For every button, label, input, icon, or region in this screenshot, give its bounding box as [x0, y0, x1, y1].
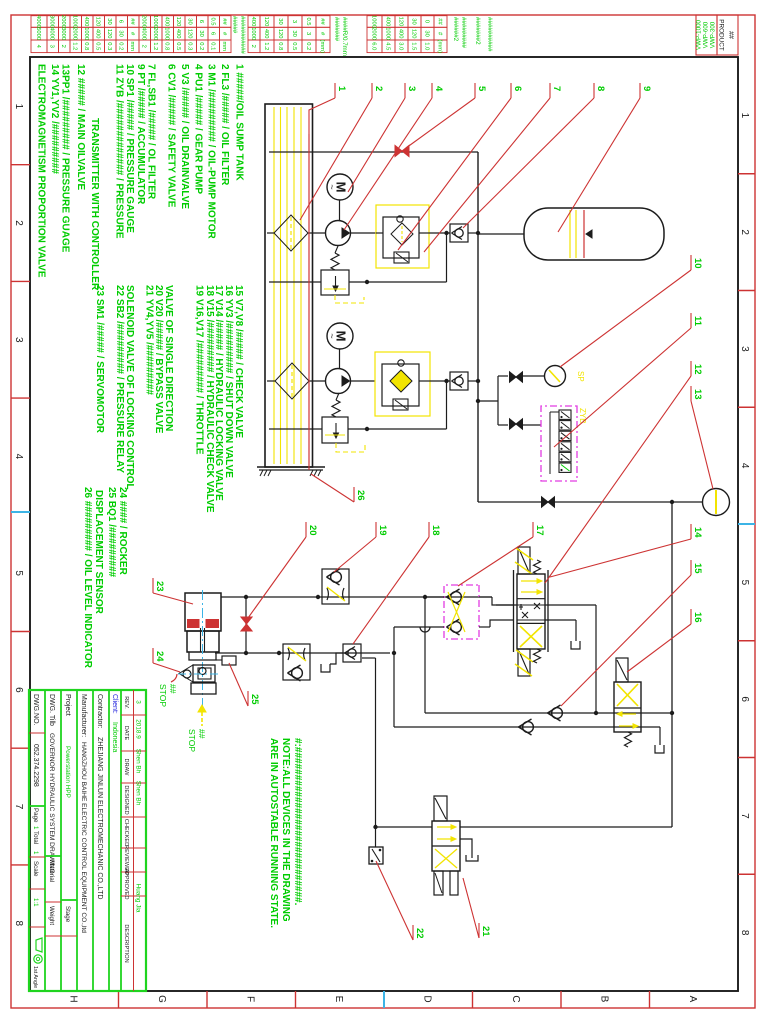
- svg-text:3: 3: [739, 346, 750, 352]
- wire FL1 to check V5: [429, 232, 450, 234]
- svg-text:1:1: 1:1: [32, 898, 39, 907]
- piston rod bottom: [200, 628, 202, 652]
- svg-text:2000: 2000: [152, 27, 158, 40]
- wire valve12 port P X=605: [545, 604, 596, 606]
- relief1 arrow: [335, 276, 337, 288]
- svg-text:18 V15 /######### / HYDRAULIC: 18 V15 /######### / HYDRAULIC CHECK VALV…: [204, 285, 215, 513]
- zone tick right 6: [206, 991, 208, 1008]
- zone tick top 3: [738, 406, 755, 408]
- svg-text:APPROVED: APPROVED: [123, 868, 129, 899]
- junction rail/gauge branch: [476, 399, 480, 403]
- wire Y=343 to X=713: [424, 597, 426, 713]
- svg-text:ZYB: ZYB: [578, 408, 587, 424]
- valve16 solenoid tab: [616, 658, 628, 682]
- svg-text:1.2: 1.2: [152, 42, 158, 50]
- wire pump1 suction: [308, 232, 326, 234]
- ZYB switch cell 4: [559, 442, 571, 451]
- svg-text:0.2: 0.2: [305, 42, 311, 50]
- svg-text:7 FL,SB1 /##### / OL FILTER: 7 FL,SB1 /##### / OL FILTER: [146, 64, 157, 200]
- yellow pilot dashed box relief1: [335, 295, 364, 303]
- motor M2: [327, 323, 353, 349]
- locking solenoid valve YV4/YV5 (21): [432, 821, 460, 871]
- svg-text:3 M1 /######### / OIL-PUMP MOT: 3 M1 /######### / OIL-PUMP MOTOR: [206, 64, 217, 239]
- svg-text:VWP-600: VWP-600: [703, 21, 710, 48]
- zone tick top 2: [738, 290, 755, 292]
- tolerance table 1 upper: [316, 16, 330, 28]
- valve12 bottom plate: [513, 570, 515, 652]
- leader 5: [474, 83, 476, 98]
- svg-text:12: 12: [692, 364, 703, 375]
- svg-text:11 ZYB /############# / PRESSU: 11 ZYB /############# / PRESSURE: [113, 64, 124, 239]
- tank oil level red line: [308, 134, 310, 470]
- junction rail/train1: [476, 231, 480, 235]
- svg-text:25 BQ1 /#########: 25 BQ1 /#########: [106, 487, 117, 578]
- svg-text:4000: 4000: [49, 27, 55, 40]
- svg-text:#: #: [436, 32, 442, 36]
- junction riser/top line: [670, 500, 674, 504]
- svg-text:HANGZHOU BAIHE ELECTRIC CONTRO: HANGZHOU BAIHE ELECTRIC CONTROL EQUIPMEN…: [80, 742, 87, 933]
- displacement sensor BQ1 (25): [222, 656, 236, 665]
- svg-text:##: ##: [727, 31, 734, 39]
- svg-text:400: 400: [263, 29, 269, 39]
- leader 14: [690, 524, 692, 539]
- check valve box (8) train1: [450, 224, 468, 242]
- svg-text:1: 1: [32, 851, 39, 855]
- zone tick bottom 2: [11, 280, 30, 282]
- svg-text:Client:: Client:: [111, 694, 118, 714]
- svg-text:2000: 2000: [72, 27, 78, 40]
- svg-text:2: 2: [250, 45, 256, 48]
- svg-text:24: 24: [154, 651, 165, 662]
- wire relief2 inlet: [348, 428, 447, 430]
- svg-text:Weight: Weight: [48, 906, 55, 925]
- svg-text:0.8: 0.8: [83, 42, 89, 50]
- svg-text:STOP: STOP: [158, 684, 168, 707]
- leader 23: [152, 578, 154, 593]
- svg-text:#######2: #######2: [474, 17, 481, 45]
- svg-text:1st Angle: 1st Angle: [32, 966, 38, 988]
- rocker bracket triangle: [179, 665, 193, 682]
- svg-text:(mm): (mm): [436, 40, 442, 54]
- check valve: [292, 668, 303, 679]
- wire gauge header: [497, 376, 499, 425]
- svg-text:B: B: [598, 996, 609, 1003]
- wire jog A to valve12: [492, 597, 513, 605]
- svg-text:30: 30: [198, 30, 204, 36]
- zone tick right 5: [295, 991, 297, 1008]
- svg-text:0.5: 0.5: [291, 42, 297, 50]
- tank oil line 5: [273, 107, 275, 464]
- svg-text:VALVE OF SINGLE DIRECTION: VALVE OF SINGLE DIRECTION: [163, 285, 174, 431]
- svg-text:3: 3: [13, 337, 24, 343]
- svg-text:7: 7: [739, 813, 750, 819]
- leader 21: [478, 923, 480, 938]
- svg-text:2: 2: [60, 45, 66, 48]
- svg-text:120: 120: [397, 17, 403, 27]
- svg-text:1: 1: [32, 826, 39, 830]
- svg-text:8: 8: [739, 930, 750, 936]
- svg-text:0: 0: [423, 20, 429, 23]
- tank feet hatches: [318, 470, 321, 476]
- svg-text:DISPLACEMENT SENSOR: DISPLACEMENT SENSOR: [93, 490, 104, 615]
- zone tick top 1: [738, 173, 755, 175]
- svg-text:3: 3: [291, 20, 297, 23]
- svg-text:30: 30: [106, 18, 112, 24]
- svg-text:DESIGNED: DESIGNED: [123, 785, 129, 814]
- leader 9: [639, 83, 641, 98]
- wire 18 to valve21 supply: [362, 657, 376, 659]
- svg-text:6: 6: [512, 86, 523, 91]
- zone tick top 7: [738, 873, 755, 875]
- leader 15: [690, 560, 692, 575]
- svg-text:7: 7: [551, 86, 562, 91]
- pilot check valve V15 (18): [343, 644, 361, 662]
- svg-text:#####: #####: [231, 16, 238, 34]
- leader 11: [690, 313, 692, 328]
- yellow pilot dashed box relief2: [336, 443, 365, 452]
- wire supply Y=392.5: [375, 658, 377, 847]
- svg-text:Stage: Stage: [64, 906, 71, 923]
- gear pump PU1 (4): [326, 221, 351, 246]
- svg-text:~: ~: [327, 333, 337, 338]
- svg-text:H: H: [67, 995, 78, 1002]
- zone tick right 2: [560, 991, 562, 1008]
- svg-text:Material: Material: [48, 860, 55, 882]
- svg-text:400: 400: [397, 29, 403, 39]
- svg-text:1.2: 1.2: [72, 42, 78, 50]
- drain hook valve12: [571, 641, 580, 649]
- title block row lines: [120, 690, 122, 991]
- svg-text:1: 1: [739, 113, 750, 119]
- svg-text:400: 400: [95, 29, 101, 39]
- svg-text:400: 400: [175, 29, 181, 39]
- leader 1: [334, 83, 336, 98]
- svg-text:22: 22: [414, 928, 425, 939]
- product corner box: [717, 15, 738, 55]
- svg-text:120: 120: [263, 17, 269, 27]
- gauge isolation valve 2: [516, 419, 523, 429]
- wire jog B to valve12: [490, 620, 513, 627]
- accumulator marker triangle: [586, 230, 592, 238]
- svg-text:DRAW: DRAW: [123, 759, 129, 777]
- wire top line Y=96: [671, 502, 673, 827]
- valve12 cell3 X yellow: [520, 626, 542, 647]
- wire rail to gauge 13 riser X=502: [478, 501, 702, 503]
- svg-text:30: 30: [410, 18, 416, 24]
- svg-text:(mm): (mm): [319, 40, 325, 54]
- servo cylinder SM1 (23): [185, 593, 221, 631]
- title header column lines: [121, 714, 146, 716]
- svg-text:14 YV1,YV2 /#########: 14 YV1,YV2 /#########: [49, 64, 60, 174]
- leader 26: [353, 487, 355, 502]
- leader 17: [532, 522, 534, 537]
- wire X=827 upper: [460, 826, 672, 828]
- valve16 X yellow 2: [617, 684, 638, 706]
- svg-text:22 SB2 /######### / PRESSURE R: 22 SB2 /######### / PRESSURE RELAY: [114, 285, 125, 473]
- zone tick bottom 6: [11, 747, 30, 749]
- svg-text:4: 4: [433, 86, 444, 92]
- svg-text:16 YV3 /######### / SHUT DOWN: 16 YV3 /######### / SHUT DOWN VALVE: [223, 285, 234, 478]
- svg-text:3000: 3000: [60, 27, 66, 40]
- wire Y=374: [393, 627, 395, 727]
- oil tank (1): [265, 104, 313, 467]
- zone tick bottom 1: [11, 164, 30, 166]
- wire through FL1 top stub: [419, 232, 429, 234]
- svg-text:2 FL3 /##### / OIL FILTER: 2 FL3 /##### / OIL FILTER: [219, 64, 230, 186]
- svg-text:F: F: [244, 996, 255, 1002]
- ZYB bus line: [549, 412, 551, 474]
- svg-text:##: ##: [319, 18, 325, 25]
- ZYB switch cell 6: [559, 463, 571, 472]
- svg-text:2000: 2000: [141, 15, 147, 28]
- svg-text:~: ~: [327, 184, 337, 189]
- svg-text:4 PU1 /##### / GEAR PUMP: 4 PU1 /##### / GEAR PUMP: [192, 64, 203, 194]
- junction discharge2/relief: [444, 379, 448, 383]
- svg-text:16: 16: [692, 612, 703, 623]
- svg-text:10: 10: [692, 258, 703, 269]
- piston rod top: [204, 628, 206, 652]
- svg-text:ZHEJIANG JINLUN ELECTROMECHANI: ZHEJIANG JINLUN ELECTROMECHANIC CO.,LTD: [96, 737, 103, 899]
- svg-text:4000: 4000: [35, 15, 41, 28]
- wire pump1 discharge lower: [351, 232, 377, 234]
- tank oil line 4: [280, 107, 282, 464]
- svg-text:0.3: 0.3: [187, 42, 193, 50]
- svg-text:D: D: [421, 995, 432, 1002]
- svg-text:120: 120: [187, 29, 193, 39]
- tank oil line 1: [300, 107, 302, 464]
- svg-text:Shen Bh: Shen Bh: [135, 749, 142, 774]
- svg-text:19: 19: [377, 525, 388, 536]
- svg-text:G: G: [156, 995, 167, 1003]
- svg-text:#: #: [319, 32, 325, 36]
- drain hook near 18: [330, 653, 343, 664]
- svg-text:20: 20: [307, 525, 318, 536]
- one-way throttle V16 (19a): [322, 569, 349, 604]
- svg-text:26 ######### / OIL LEVEL INDIC: 26 ######### / OIL LEVEL INDICATOR: [82, 487, 93, 669]
- svg-text:######2: ######2: [452, 17, 459, 42]
- svg-text:0.3: 0.3: [106, 42, 112, 50]
- svg-text:DWG. Tilb: DWG. Tilb: [48, 694, 55, 726]
- svg-text:Scale: Scale: [32, 861, 39, 877]
- gear pump PU2: [326, 369, 351, 394]
- svg-text:Contractor:: Contractor:: [96, 694, 103, 729]
- svg-text:DATE: DATE: [123, 726, 129, 741]
- svg-text:Project: Project: [64, 694, 71, 716]
- wire relief2 to tank: [269, 428, 322, 430]
- svg-text:3: 3: [305, 32, 311, 35]
- svg-text:1000: 1000: [370, 15, 376, 28]
- svg-text:2: 2: [13, 220, 24, 226]
- locking valve pilot cross 1: [448, 592, 465, 632]
- svg-text:1: 1: [336, 86, 347, 92]
- junction line B / 19b: [277, 651, 281, 655]
- svg-text:17: 17: [534, 525, 545, 536]
- wire X=713: [425, 712, 672, 714]
- svg-text:1000: 1000: [250, 27, 256, 40]
- zone tick right 4: [383, 991, 385, 1008]
- svg-text:23: 23: [154, 581, 165, 592]
- svg-text:6 CV1 /##### / SAFETY VALVE: 6 CV1 /##### / SAFETY VALVE: [166, 64, 177, 208]
- svg-text:14: 14: [692, 527, 703, 538]
- centering mark bottom: [11, 511, 30, 513]
- cylinder rod housing: [187, 652, 219, 660]
- svg-text:15: 15: [692, 563, 703, 574]
- svg-text:11: 11: [692, 316, 703, 327]
- svg-text:NOTE:ALL DEVICES IN THE DRAWIN: NOTE:ALL DEVICES IN THE DRAWING: [280, 738, 291, 922]
- svg-text:6: 6: [118, 20, 124, 23]
- svg-text:TRANSMITTER WITH CONTROLLER: TRANSMITTER WITH CONTROLLER: [89, 118, 100, 291]
- leader 8: [593, 83, 595, 98]
- wire X=727: [394, 726, 660, 728]
- check valve: [451, 622, 462, 633]
- suction filter 2: [275, 363, 309, 399]
- svg-text:6: 6: [210, 32, 216, 35]
- svg-text:21: 21: [480, 926, 491, 937]
- svg-text:23 SM1 /##### / SERVOMOTOR: 23 SM1 /##### / SERVOMOTOR: [94, 285, 105, 434]
- zone tick top 6: [738, 757, 755, 759]
- svg-text:4: 4: [13, 454, 24, 460]
- svg-text:9: 9: [641, 86, 652, 91]
- wire motor-pump coupling 2: [339, 349, 341, 369]
- svg-text:DESCRIPTION: DESCRIPTION: [123, 924, 129, 962]
- valve12 top plate: [547, 570, 549, 652]
- svg-text:30: 30: [187, 18, 193, 24]
- svg-text:2018.9: 2018.9: [135, 719, 142, 739]
- svg-text:####R/0.7mm: ####R/0.7mm: [341, 17, 348, 56]
- wire port T through valve body: [517, 619, 545, 621]
- svg-text:120: 120: [277, 29, 283, 39]
- title block outer border: [29, 690, 146, 991]
- svg-text:0.2: 0.2: [198, 42, 204, 50]
- svg-text:1 #####/OIL SUMP TANK: 1 #####/OIL SUMP TANK: [233, 64, 244, 181]
- ZYB switch cell 2: [559, 421, 571, 430]
- svg-text:Shen Bh: Shen Bh: [135, 781, 142, 806]
- svg-text:1.2: 1.2: [263, 42, 269, 50]
- leader 22: [412, 925, 414, 940]
- leader 25: [247, 691, 249, 706]
- hop of X=627 over Y=343: [420, 627, 430, 632]
- svg-text:5: 5: [13, 570, 24, 576]
- wire port P through valve body: [517, 604, 545, 606]
- svg-text:ELECTROMAGNETISM PROPORTION VA: ELECTROMAGNETISM PROPORTION VALVE: [36, 64, 47, 278]
- svg-text:1000: 1000: [72, 15, 78, 28]
- junction relief1: [365, 280, 369, 284]
- rocker rear block: [191, 683, 216, 694]
- filter diamond inside FL1: [391, 223, 413, 245]
- svg-text:9 PT /##### / ACCUMULATOR: 9 PT /##### / ACCUMULATOR: [135, 64, 146, 205]
- svg-text:CHECKED: CHECKED: [123, 819, 129, 846]
- svg-text:1: 1: [13, 104, 24, 110]
- tank oil line 2: [293, 107, 295, 464]
- svg-text:GOVERNOR HYDRAULIC SYSTEM DRAW: GOVERNOR HYDRAULIC SYSTEM DRAWING: [48, 733, 55, 874]
- svg-text:STOP: STOP: [187, 729, 197, 752]
- wire top of X=727 to drain: [659, 727, 661, 745]
- svg-text:##: ##: [168, 684, 178, 694]
- valve21 drain: [460, 839, 472, 858]
- zone tick bottom 3: [11, 397, 30, 399]
- svg-text:E: E: [333, 996, 344, 1003]
- svg-text:120: 120: [106, 29, 112, 39]
- svg-text:0.5: 0.5: [305, 17, 311, 25]
- wire X=827 lower: [376, 826, 433, 828]
- leader 7: [549, 83, 551, 98]
- svg-text:10 SP1 /##### / PRESSURE GAUGE: 10 SP1 /##### / PRESSURE GAUGE: [124, 64, 135, 233]
- svg-text:VWP-1000: VWP-1000: [696, 19, 703, 49]
- svg-text:1000: 1000: [83, 27, 89, 40]
- shutdown solenoid valve YV3 (16): [614, 682, 641, 732]
- svg-text:REV.: REV.: [123, 696, 129, 709]
- cylinder centerline cyan: [202, 590, 204, 706]
- svg-text:##: ##: [197, 729, 207, 739]
- svg-text:3.0: 3.0: [397, 42, 403, 50]
- svg-text:8: 8: [13, 920, 24, 926]
- relief valve CV2 train2: [322, 417, 348, 443]
- leader 18: [428, 522, 430, 537]
- check valve: [331, 572, 342, 583]
- svg-text:26: 26: [355, 490, 366, 501]
- drain valve V3 (red): [402, 145, 409, 156]
- svg-text:120: 120: [175, 17, 181, 27]
- svg-text:Total: Total: [32, 831, 39, 844]
- svg-text:19 V16,V17 /######### / THROTT: 19 V16,V17 /######### / THROTTLE: [194, 285, 205, 455]
- zone tick right 7: [118, 991, 120, 1008]
- wire check1 to rail: [468, 232, 478, 234]
- svg-text:18: 18: [430, 525, 441, 536]
- svg-text:2: 2: [373, 86, 384, 91]
- wire valve12 port T drain: [545, 619, 576, 621]
- valve12 center cell symbols: [534, 603, 540, 609]
- leader 19: [375, 522, 377, 537]
- valve21 solenoid tab: [434, 796, 447, 821]
- svg-text:#:############################: #:############################.: [292, 738, 303, 906]
- wire drain line X=152 upper: [313, 151, 478, 153]
- svg-text:PRODUCT: PRODUCT: [718, 19, 725, 51]
- accumulator yellow line 1: [575, 210, 577, 258]
- junction relief2: [365, 427, 369, 431]
- svg-text:25: 25: [249, 694, 260, 705]
- bypass valve V20 (20) red: [241, 617, 252, 624]
- wire cylinder line B X=653: [215, 652, 390, 654]
- check valve: [523, 722, 534, 733]
- wire FL2 to check: [430, 380, 450, 382]
- junction discharge1/relief: [444, 231, 448, 235]
- leader 2: [371, 83, 373, 98]
- accumulator PT (9) capsule: [524, 208, 664, 260]
- svg-text:13PP1 /######### / PRESSURE GU: 13PP1 /######### / PRESSURE GUAGE: [59, 64, 70, 253]
- zone tick right 1: [649, 991, 651, 1008]
- pressure transmitter ZYB (11) magenta box: [541, 406, 577, 481]
- tolerance table 2: [434, 16, 447, 28]
- svg-text:120: 120: [95, 17, 101, 27]
- zone tick right 3: [472, 991, 474, 1008]
- pressure gauge SP1 (10): [545, 366, 566, 387]
- valve12 right pilot (prop solenoid YV2): [518, 649, 530, 676]
- svg-text:400: 400: [250, 17, 256, 27]
- svg-text:5000: 5000: [35, 27, 41, 40]
- svg-text:4: 4: [35, 45, 41, 49]
- leader 6: [510, 83, 512, 98]
- junction line A / Y343: [423, 595, 427, 599]
- ZYB switch cell 3: [559, 431, 571, 440]
- leader 16: [690, 609, 692, 624]
- svg-text:400: 400: [83, 17, 89, 27]
- wire pump2 discharge lower: [351, 380, 376, 382]
- check valve: [552, 708, 563, 719]
- rocker centerline cyan: [178, 673, 218, 675]
- tolerance table 1 lower: [220, 16, 232, 28]
- svg-text:ARE IN AUTOSTABLE RUNNING STAT: ARE IN AUTOSTABLE RUNNING STATE.: [268, 738, 279, 928]
- zone tick top 5: [738, 640, 755, 642]
